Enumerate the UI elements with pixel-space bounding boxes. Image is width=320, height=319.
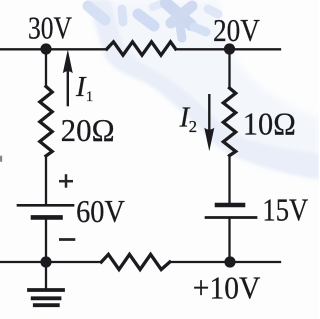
- wire top-right segment: [176, 48, 280, 50]
- svg-text:20Ω: 20Ω: [61, 113, 115, 148]
- wire right branch upper: [228, 49, 230, 88]
- svg-text:+10V: +10V: [193, 270, 261, 305]
- wire left branch upper: [45, 49, 47, 87]
- svg-text:60V: 60V: [76, 194, 125, 229]
- ground stub wire: [45, 262, 47, 288]
- ground bar 3: [35, 303, 58, 307]
- watermark wash region: [88, 0, 319, 179]
- svg-text:30V: 30V: [28, 11, 72, 46]
- ground bar 1: [29, 288, 63, 292]
- wire bottom-left segment: [1, 261, 101, 263]
- battery B1 60V long plate (+): [18, 204, 73, 207]
- plus sign (battery B1 polarity): [59, 174, 73, 188]
- battery B2 15V long plate (+): [206, 216, 256, 219]
- minus sign (battery B1 polarity): [59, 238, 75, 241]
- resistor R-bottom zigzag: [101, 254, 170, 269]
- resistor R2 10ohm zigzag: [223, 88, 235, 156]
- svg-text:15V: 15V: [262, 192, 308, 227]
- node 20V junction dot: [224, 43, 235, 54]
- battery B1 60V short thick plate (-): [33, 215, 61, 220]
- svg-text:2: 2: [189, 117, 197, 136]
- svg-text:1: 1: [86, 89, 94, 105]
- resistor R-top (between 30V and 20V nodes): [107, 42, 176, 55]
- watermark snowflake logo: [88, 3, 218, 38]
- svg-text:10Ω: 10Ω: [243, 106, 296, 141]
- svg-text:20V: 20V: [213, 13, 260, 48]
- current arrow I1 (up): [63, 50, 73, 107]
- ground bar 2: [33, 296, 60, 300]
- node gnd junction dot: [40, 256, 51, 267]
- main circuit: [1, 42, 280, 305]
- resistor R1 20ohm zigzag: [40, 87, 52, 156]
- wire top-left segment: [1, 48, 107, 50]
- node 30V junction dot: [40, 43, 51, 54]
- battery B2 15V short thick plate (-): [217, 203, 243, 208]
- left-edge scan artifact: [0, 156, 2, 163]
- node +10V junction dot: [224, 256, 235, 267]
- current arrow I2 (down): [204, 94, 214, 151]
- wire bottom-right segment: [170, 261, 280, 263]
- wire left branch lower: [45, 218, 47, 262]
- wire left branch to battery: [45, 156, 47, 204]
- wire right branch to battery: [228, 156, 230, 203]
- watermark band stripe: [88, 0, 319, 179]
- wire right branch lower: [228, 219, 230, 262]
